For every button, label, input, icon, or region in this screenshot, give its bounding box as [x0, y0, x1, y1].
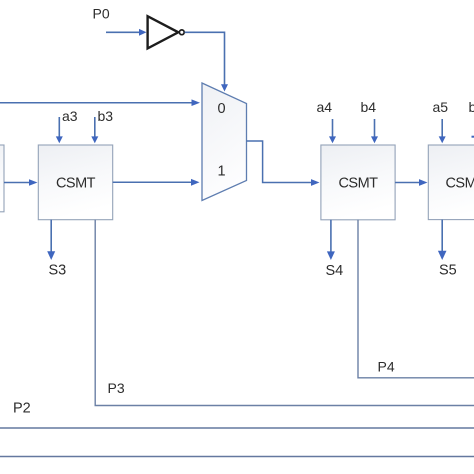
wire a3	[56, 117, 63, 143]
svg-text:0: 0	[217, 101, 225, 117]
wire b5 (clipped at edge)	[472, 136, 474, 138]
svg-text:CSMT: CSMT	[56, 176, 96, 192]
CSMT U3	[38, 145, 112, 220]
wire P2 carry line	[0, 427, 474, 429]
wire a4	[329, 119, 336, 143]
wire S3	[47, 220, 55, 260]
svg-text:b3: b3	[98, 108, 114, 124]
svg-text:P2: P2	[13, 401, 31, 417]
svg-text:S5: S5	[439, 262, 457, 278]
wire mux output to U4	[247, 141, 320, 186]
svg-text:P3: P3	[108, 380, 125, 396]
wire a5	[439, 119, 446, 143]
wire U2 to U3	[4, 179, 38, 186]
wire b4	[371, 119, 378, 143]
svg-text:CSMT: CSMT	[445, 176, 474, 192]
svg-text:b4: b4	[361, 99, 377, 115]
wire b3	[91, 117, 98, 143]
wire S4	[327, 220, 335, 260]
wire P3	[95, 220, 474, 406]
svg-text:S3: S3	[49, 263, 67, 279]
wire bottom carry line	[0, 456, 474, 458]
CSMT U4	[321, 145, 395, 220]
svg-text:1: 1	[217, 163, 225, 179]
svg-text:a3: a3	[62, 108, 78, 124]
inverter U1	[148, 16, 185, 48]
svg-text:a5: a5	[433, 99, 449, 115]
wire P0 input to inverter	[106, 29, 147, 36]
wire U3 to mux input 1	[113, 179, 200, 186]
wire carry-in to mux input 0	[0, 99, 200, 106]
svg-text:b5: b5	[469, 99, 474, 115]
svg-text:P4: P4	[378, 359, 395, 375]
svg-text:a4: a4	[317, 99, 333, 115]
svg-text:CSMT: CSMT	[338, 176, 378, 192]
mux U5	[202, 83, 247, 201]
wire inverter to mux select	[185, 32, 228, 91]
svg-text:S4: S4	[326, 263, 344, 279]
CSMT block U2 (partial at left edge)	[0, 145, 4, 212]
wire U4 to U6	[395, 179, 427, 186]
CSMT U6	[428, 145, 474, 220]
svg-text:P0: P0	[93, 6, 110, 22]
wire P4	[358, 220, 474, 378]
wire S5	[438, 220, 447, 260]
